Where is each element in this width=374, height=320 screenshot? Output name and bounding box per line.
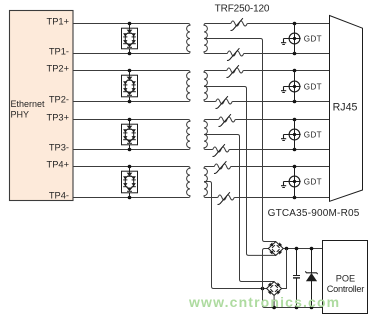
svg-text:Controller: Controller [327,284,365,294]
ESD diode array D3 [122,118,138,152]
transformer T4 primary winding [187,167,190,198]
bridge rectifier BR1 [268,242,283,256]
svg-text:TP2-: TP2- [49,95,69,105]
svg-text:POE: POE [336,273,355,283]
ground symbol for GDT G1 [281,39,289,45]
svg-text:TP1-: TP1- [49,47,69,57]
svg-text:GDT: GDT [304,35,322,44]
svg-text:GTCA35-900M-R05: GTCA35-900M-R05 [268,208,360,219]
wire TP3- from PHY to transformer T3 primary [73,149,187,151]
ESD diode array D2 [122,69,138,104]
Ethernet PHY block [10,11,74,201]
svg-text:TP3-: TP3- [49,143,69,153]
GDT gas discharge tube G3 [288,118,300,152]
capacitor C1 [293,247,300,310]
svg-text:TP4+: TP4+ [47,160,69,170]
junction node positive rail to BR2 [285,247,289,251]
wire TP2- from PHY to transformer T2 primary [73,101,187,103]
TVS diode D9 [305,247,317,310]
svg-text:TP2+: TP2+ [47,64,69,74]
transformer T1 primary winding [187,24,190,54]
ground symbol for GDT G4 [281,182,289,188]
transformer T3 secondary winding [204,120,207,150]
fuse F1 (TRF250-120) [231,21,247,26]
bridge rectifier BR2 [267,282,282,296]
wire T3 center tap to bridge BR2 top [204,135,274,282]
wire T4 secondary bottom to RJ45 [206,197,218,199]
wire TP2+ from PHY to transformer T2 primary [73,70,187,72]
transformer T2 primary winding [187,71,190,102]
fuse F7 (TRF250-120) [214,164,230,169]
fuse F5 (TRF250-120) [219,117,235,122]
svg-text:GDT: GDT [304,178,322,187]
wire T3 secondary bottom to RJ45 [206,149,213,151]
transformer T3 primary winding [187,120,190,150]
svg-text:PHY: PHY [11,110,30,120]
wire T2 secondary top to RJ45 [206,70,227,72]
wire TP1- from PHY to transformer T1 primary [73,53,187,55]
wire T1 secondary top to RJ45 [206,23,231,25]
svg-text:Ethernet: Ethernet [11,99,46,109]
wire positive rail bridge BR1 right to POE controller [283,248,322,250]
fuse F3 (TRF250-120) [227,68,243,73]
GDT gas discharge tube G2 [288,69,300,104]
fuse F4 (TRF250-120) [216,99,232,104]
fuse F8 (TRF250-120) [218,195,234,200]
wire T2 secondary bottom to RJ45 [206,101,216,103]
wire TP4- from PHY to transformer T4 primary [73,197,187,199]
ground symbol for GDT G3 [281,135,289,141]
ESD diode array D1 [122,22,138,56]
GDT gas discharge tube G1 [288,22,300,56]
wire T3 secondary top to RJ45 [206,119,219,121]
wire T4 secondary top to RJ45 [206,166,215,168]
wire bridge BR2 bottom to negative rail [273,295,275,307]
fuse F2 (TRF250-120) [227,51,243,56]
wire TP4+ from PHY to transformer T4 primary [73,166,187,168]
svg-text:GDT: GDT [304,83,322,92]
junction node spare-pair tie [261,287,265,291]
ground symbol for GDT G2 [281,87,289,93]
svg-text:TP1+: TP1+ [47,17,69,27]
wire T1 center tap to bridge BR1 top [204,39,276,242]
wire T2 center tap to bridge BR1 bottom [204,87,276,256]
ESD diode array D4 [122,165,138,200]
svg-text:TP4-: TP4- [49,191,69,201]
svg-text:TRF250-120: TRF250-120 [215,3,270,14]
junction node BR2 bottom on negative rail [272,306,276,310]
fuse F6 (TRF250-120) [213,147,229,152]
svg-text:TP3+: TP3+ [47,113,69,123]
wire T1 secondary bottom to RJ45 [206,53,228,55]
wire TP1+ from PHY to transformer T1 primary [73,23,187,25]
transformer T4 secondary winding [204,167,207,198]
RJ45 connector J1 [330,16,363,202]
wire positive rail down to bridge BR2 right [282,249,287,289]
wire T4 center tap to bridge BR2 left [204,182,267,289]
svg-text:RJ45: RJ45 [333,102,358,114]
GDT gas discharge tube G4 [288,165,300,200]
wire bridge BR1 left to negative rail [263,249,323,308]
POE Controller U1 [323,241,368,314]
svg-text:www.cntronics.com: www.cntronics.com [188,294,340,310]
transformer T2 secondary winding [204,71,207,102]
svg-text:GDT: GDT [304,131,322,140]
wire TP3+ from PHY to transformer T3 primary [73,119,187,121]
transformer T1 secondary winding [204,24,207,54]
